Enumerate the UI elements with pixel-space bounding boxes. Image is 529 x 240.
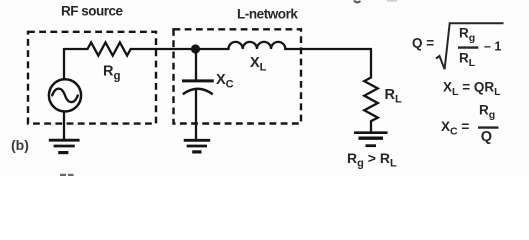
svg-text:L-network: L-network [237, 7, 298, 22]
svg-text:Q: Q [481, 129, 492, 145]
svg-text:Q =: Q = [412, 35, 434, 50]
svg-text:– 1: – 1 [484, 40, 501, 54]
svg-text:RF source: RF source [61, 3, 124, 18]
svg-text:(b): (b) [11, 137, 29, 153]
